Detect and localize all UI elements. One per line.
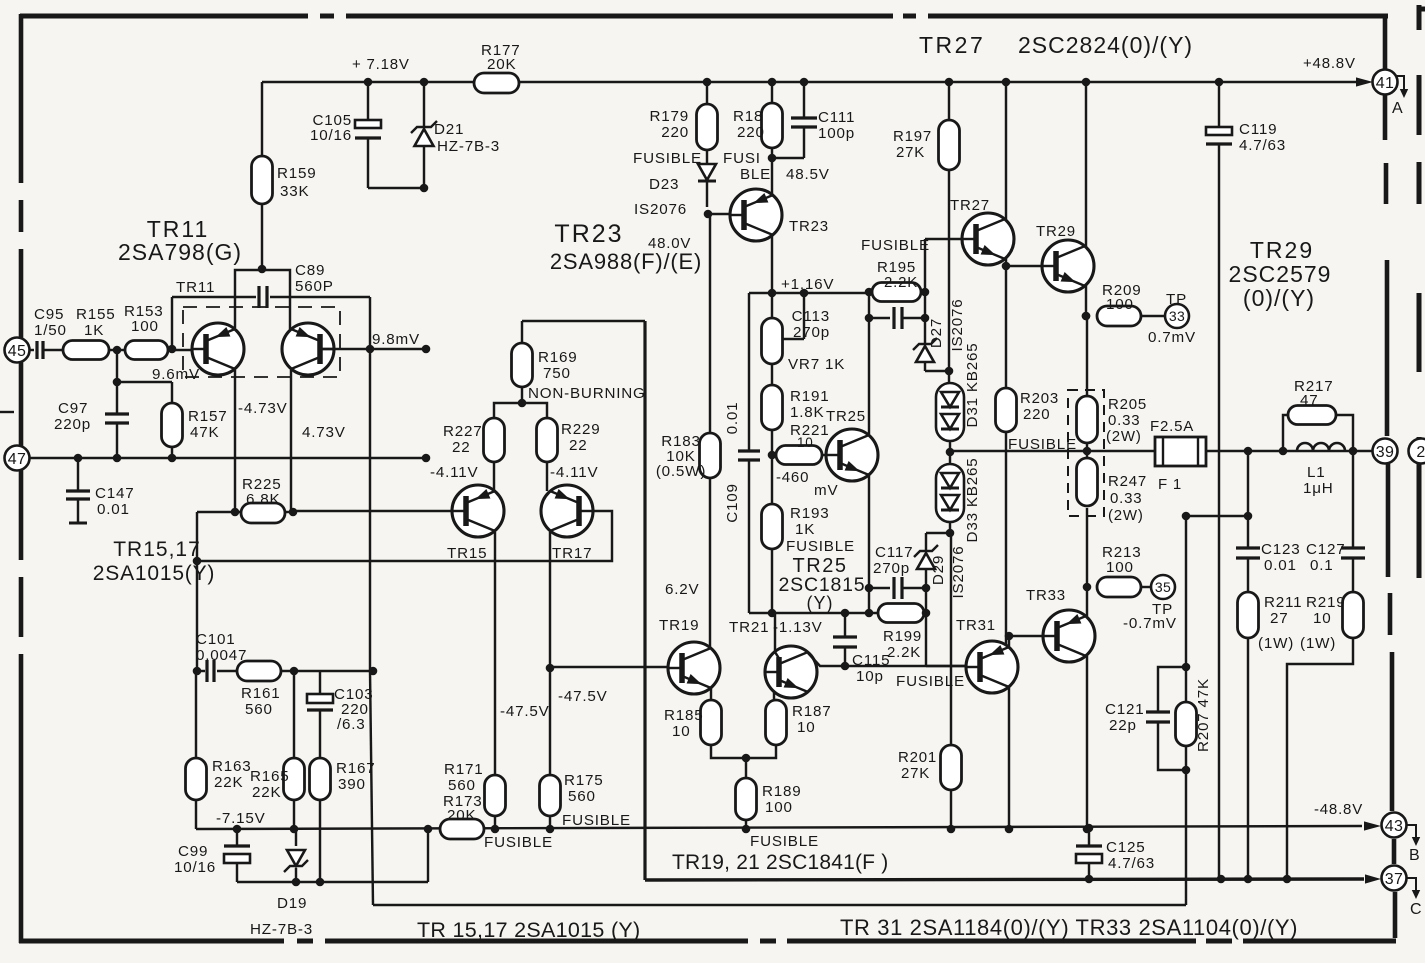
svg-text:270p: 270p <box>793 324 830 341</box>
transistor TR21 <box>765 646 817 698</box>
svg-text:FUSIBLE: FUSIBLE <box>786 538 855 555</box>
svg-text:(2W): (2W) <box>1106 428 1142 445</box>
svg-text:33: 33 <box>1169 308 1185 324</box>
svg-text:D23: D23 <box>649 176 679 193</box>
svg-text:R163: R163 <box>212 758 252 775</box>
svg-text:C101: C101 <box>196 631 236 648</box>
resistor R173 <box>440 819 484 839</box>
transistor TR11 (right half) <box>282 323 334 375</box>
wire R191 bottom junction <box>771 430 773 455</box>
svg-text:-7.15V: -7.15V <box>216 810 266 827</box>
svg-text:C125: C125 <box>1106 839 1146 856</box>
svg-text:VR7 1K: VR7 1K <box>788 356 845 373</box>
svg-text:R169: R169 <box>538 349 578 366</box>
resistor R193 <box>771 455 773 504</box>
inductor L1 <box>1297 443 1345 451</box>
node 39 <box>1373 439 1398 464</box>
svg-text:A: A <box>1392 100 1403 117</box>
wire TR17 emitter lead <box>546 462 548 491</box>
svg-text:0.01: 0.01 <box>1264 557 1297 574</box>
capacitor C119 <box>1218 82 1220 127</box>
svg-text:9.6mV: 9.6mV <box>152 366 200 383</box>
svg-text:TR27: TR27 <box>919 32 985 58</box>
svg-text:TR15,17: TR15,17 <box>113 538 201 561</box>
svg-text:FUSIBLE: FUSIBLE <box>633 150 702 167</box>
wire TR19 base row <box>550 666 667 668</box>
svg-text:10: 10 <box>672 723 691 740</box>
resistor R171 <box>485 775 506 816</box>
resistor R229 <box>537 418 558 462</box>
svg-text:27K: 27K <box>896 144 925 161</box>
wire R199 right column to TR31 base <box>925 588 927 613</box>
svg-text:TR29: TR29 <box>1250 237 1314 263</box>
wire TR15 collector column to R171 <box>494 532 496 775</box>
svg-text:D31 KB265: D31 KB265 <box>964 343 981 428</box>
wire TR25 emitter column <box>868 475 870 613</box>
zener diode D29 <box>925 533 927 551</box>
capacitor C111 <box>803 82 805 117</box>
svg-text:D21: D21 <box>434 121 464 138</box>
wire TR23 base lead <box>708 213 744 215</box>
wire TR21 base lead <box>774 613 776 652</box>
wire TR29 base lead <box>1006 265 1042 267</box>
wire R159 column <box>261 82 263 158</box>
svg-text:2.2K: 2.2K <box>884 274 918 291</box>
svg-text:10: 10 <box>797 435 814 450</box>
wire big loop box right edge (thick) <box>643 321 646 880</box>
zener diode D19 <box>295 829 297 846</box>
svg-text:C147: C147 <box>95 485 135 502</box>
svg-text:C95: C95 <box>34 306 64 323</box>
svg-text:C89: C89 <box>295 262 325 279</box>
node TR23 base junction <box>704 210 713 219</box>
wire TR21/TR25 base row (y=613) <box>749 612 880 614</box>
svg-text:R205: R205 <box>1108 396 1147 413</box>
svg-text:F 1: F 1 <box>1158 476 1182 493</box>
resistor R183 <box>709 214 711 433</box>
wire TR21 collector row <box>808 653 966 666</box>
svg-text:FUSIBLE: FUSIBLE <box>750 833 819 850</box>
resistor R163 <box>195 671 197 758</box>
svg-text:10: 10 <box>797 719 816 736</box>
zener diode D21 <box>423 82 425 127</box>
svg-text:100p: 100p <box>818 125 855 142</box>
diode stack D31 (KB265) <box>948 371 950 383</box>
svg-text:2SA798(G): 2SA798(G) <box>118 239 242 265</box>
svg-text:C99: C99 <box>178 843 208 860</box>
node D31 top <box>945 367 954 376</box>
wire TR25 collector column <box>868 318 870 435</box>
svg-text:C117: C117 <box>875 544 913 561</box>
svg-text:2: 2 <box>1416 444 1425 461</box>
svg-text:1μH: 1μH <box>1303 480 1334 497</box>
svg-text:560: 560 <box>568 788 596 805</box>
svg-text:TR17: TR17 <box>552 545 592 562</box>
arrow B below node 43 <box>1406 825 1416 838</box>
junction dots C-rail <box>1085 875 1094 884</box>
diode D27 <box>913 338 937 350</box>
resistor R179 <box>706 82 708 104</box>
wire TR23 emitter node <box>772 157 804 159</box>
wire R207 column upper <box>1185 516 1187 702</box>
svg-text:R201: R201 <box>898 749 937 766</box>
wire R225 left jog down <box>196 512 198 671</box>
svg-text:R187: R187 <box>792 703 832 720</box>
svg-text:R193: R193 <box>790 505 830 522</box>
resistor R219 <box>1343 592 1364 638</box>
svg-text:2SA1015(Y): 2SA1015(Y) <box>93 562 215 585</box>
svg-text:-47.5V: -47.5V <box>558 688 608 705</box>
svg-text:22K: 22K <box>252 784 281 801</box>
diode stack D33 (KB265) <box>949 452 951 464</box>
svg-text:R191: R191 <box>790 388 830 405</box>
resistor R199 <box>878 604 924 623</box>
node 43 <box>1382 813 1407 838</box>
svg-text:100: 100 <box>1106 559 1134 576</box>
svg-text:D27: D27 <box>928 318 945 348</box>
svg-text:FUSIBLE: FUSIBLE <box>896 673 965 690</box>
svg-text:IS2076: IS2076 <box>950 546 967 599</box>
svg-text:20K: 20K <box>487 56 516 73</box>
resistor R175 <box>540 775 561 816</box>
capacitor C115 <box>844 613 846 636</box>
svg-text:R161: R161 <box>241 685 281 702</box>
svg-text:2SC2579: 2SC2579 <box>1229 261 1332 287</box>
transistor TR25 <box>826 429 878 481</box>
wire C97 column <box>116 350 118 413</box>
svg-text:(1W): (1W) <box>1300 635 1336 652</box>
wire R155 to R153 <box>109 349 125 351</box>
svg-text:-0.7mV: -0.7mV <box>1123 615 1177 632</box>
svg-text:C121: C121 <box>1105 701 1145 718</box>
wire feedback tap row <box>1186 515 1248 517</box>
svg-text:6.8K: 6.8K <box>246 491 280 508</box>
svg-text:390: 390 <box>338 776 366 793</box>
resistor R247 <box>1077 458 1098 506</box>
transistor TR17 <box>541 485 593 537</box>
resistor R191 <box>771 364 773 385</box>
svg-text:4.7/63: 4.7/63 <box>1108 855 1155 872</box>
svg-text:R175: R175 <box>564 772 604 789</box>
svg-text:(Y): (Y) <box>807 593 834 613</box>
svg-text:1/50: 1/50 <box>34 322 67 339</box>
svg-text:(1W): (1W) <box>1258 635 1294 652</box>
svg-text:47: 47 <box>1300 392 1319 409</box>
transistor TR27 <box>962 213 1014 265</box>
wire TR11 right base to feedback column <box>321 348 426 350</box>
wire +48.8V top rail <box>262 81 1364 83</box>
svg-text:0.01: 0.01 <box>724 402 741 435</box>
test point node 35 <box>1151 575 1175 599</box>
svg-text:(2W): (2W) <box>1108 507 1144 524</box>
wire big loop box top edge <box>522 320 645 323</box>
svg-text:1.8K: 1.8K <box>790 404 824 421</box>
resistor R161 <box>237 661 281 681</box>
wire node 47 rail <box>29 457 426 459</box>
svg-text:750: 750 <box>543 365 571 382</box>
svg-text:C115: C115 <box>852 652 890 669</box>
svg-text:R197: R197 <box>893 128 932 145</box>
svg-text:C109: C109 <box>724 483 741 523</box>
wire TR17 collector column to R175 <box>549 532 551 775</box>
wire C123 column <box>1247 451 1249 548</box>
wire TR31 collector down <box>1008 687 1010 826</box>
resistor R227 <box>484 418 505 462</box>
capacitor C95 <box>29 349 34 351</box>
wire R219 bottom return <box>1287 638 1353 878</box>
transistor TR15 <box>452 485 504 537</box>
svg-text:R185: R185 <box>664 707 704 724</box>
node 45 <box>5 338 30 363</box>
svg-text:-48.8V: -48.8V <box>1314 801 1363 818</box>
arrow A below node 41 <box>1397 76 1404 90</box>
svg-text:D19: D19 <box>277 895 307 912</box>
wire R185/R187 bottom bracket <box>711 745 776 758</box>
svg-text:C97: C97 <box>58 400 88 417</box>
junction dots -48.8V rail <box>233 825 242 834</box>
wire D33 bottom to R201 <box>950 533 952 745</box>
svg-text:R179: R179 <box>649 108 689 125</box>
resistor R153 <box>125 341 168 360</box>
svg-text:48.5V: 48.5V <box>786 166 830 183</box>
svg-text:39: 39 <box>1376 444 1394 461</box>
svg-text:6.2V: 6.2V <box>665 581 700 598</box>
svg-text:C111: C111 <box>818 109 855 126</box>
resistor R217 <box>1283 415 1288 451</box>
svg-text:2SA988(F)/(E): 2SA988(F)/(E) <box>550 249 702 274</box>
wire TR15 base row <box>293 510 452 512</box>
resistor R205 <box>1086 316 1088 396</box>
border frame right edge <box>1383 16 1388 140</box>
wire bottom return riser <box>427 829 429 882</box>
resistor R209 <box>1082 312 1091 321</box>
svg-text:R171: R171 <box>444 761 484 778</box>
svg-text:10p: 10p <box>856 668 884 685</box>
wire TR11 right collector column <box>290 370 292 512</box>
svg-text:HZ-7B-3: HZ-7B-3 <box>437 138 500 155</box>
svg-text:560P: 560P <box>295 278 334 295</box>
border frame bottom edge <box>19 939 284 944</box>
svg-text:0.33: 0.33 <box>1110 490 1142 507</box>
dashed outline matched pair TR11 <box>183 307 340 377</box>
svg-text:F2.5A: F2.5A <box>1150 418 1194 435</box>
svg-text:C119: C119 <box>1239 121 1277 138</box>
wire R227/R229 top bracket <box>494 403 547 418</box>
svg-text:220: 220 <box>1023 406 1050 423</box>
svg-text:560: 560 <box>448 777 476 794</box>
wire C101/R161 row <box>197 670 205 672</box>
wire +1.16V row <box>749 292 868 294</box>
transistor TR11 (left half) <box>192 323 244 375</box>
svg-text:R18: R18 <box>733 108 763 125</box>
wire TR33 collector down <box>1086 656 1088 826</box>
svg-text:47K: 47K <box>190 424 219 441</box>
capacitor C121 <box>1158 667 1186 711</box>
svg-text:100: 100 <box>1106 296 1134 313</box>
resistor R157 <box>162 403 183 447</box>
svg-text:HZ-7B-3: HZ-7B-3 <box>250 921 313 938</box>
svg-text:D33 KB265: D33 KB265 <box>964 458 981 543</box>
wire TR27 base corner column <box>924 239 926 344</box>
svg-text:43: 43 <box>1385 818 1403 835</box>
capacitor C147 <box>77 458 79 490</box>
svg-text:R165: R165 <box>250 768 290 785</box>
wire TR11 left base riser to C89 <box>171 297 173 349</box>
svg-text:TR 15,17 2SA1015 (Y): TR 15,17 2SA1015 (Y) <box>417 918 641 942</box>
svg-text:1K: 1K <box>84 322 104 339</box>
svg-text:10/16: 10/16 <box>174 859 216 876</box>
wire bottom C-rail (thick) <box>645 879 1364 880</box>
resistor R165 <box>293 671 295 758</box>
wire TR29 collector to rail <box>1085 82 1087 248</box>
svg-text:TR25: TR25 <box>826 408 866 425</box>
svg-text:NON-BURNING: NON-BURNING <box>528 385 646 402</box>
wire C109 upper column <box>748 293 750 450</box>
svg-text:560: 560 <box>245 701 273 718</box>
svg-text:-4.11V: -4.11V <box>430 464 478 481</box>
wire TR27 base lead <box>925 238 975 240</box>
svg-text:100: 100 <box>765 799 793 816</box>
svg-text:R189: R189 <box>762 783 802 800</box>
svg-text:-1.13V: -1.13V <box>773 619 823 636</box>
svg-text:TR23: TR23 <box>554 220 623 248</box>
svg-text:TR31: TR31 <box>956 617 996 634</box>
transistor TR19 <box>668 642 720 694</box>
wire TR23 collector column <box>771 235 773 293</box>
svg-text:100: 100 <box>131 318 159 335</box>
svg-text:-4.73V: -4.73V <box>238 400 288 417</box>
capacitor C109 <box>738 449 760 452</box>
resistor R155 <box>63 341 109 360</box>
svg-text:C113: C113 <box>792 308 830 325</box>
svg-text:IS2076: IS2076 <box>634 201 687 218</box>
svg-text:9.8mV: 9.8mV <box>372 331 420 348</box>
wire TR29 emitter down <box>1085 284 1087 316</box>
svg-text:TR11: TR11 <box>176 279 215 296</box>
svg-text:10: 10 <box>1313 610 1332 627</box>
border frame left edge <box>19 14 24 16</box>
svg-text:-4.11V: -4.11V <box>550 464 598 481</box>
svg-text:4.7/63: 4.7/63 <box>1239 137 1286 154</box>
wire TR33 emitter up / R213 node <box>1086 508 1088 616</box>
svg-text:22: 22 <box>452 439 471 456</box>
svg-text:22p: 22p <box>1109 717 1137 734</box>
svg-text:TR19: TR19 <box>659 617 699 634</box>
capacitor C125 <box>1085 824 1094 833</box>
capacitor C97 <box>105 412 129 415</box>
svg-text:R155: R155 <box>76 306 116 323</box>
capacitor C117 <box>869 587 890 589</box>
svg-text:+1.16V: +1.16V <box>781 276 834 293</box>
resistor R187 <box>766 700 787 745</box>
resistor R159 <box>252 156 273 204</box>
wire TR11 left collector column <box>234 370 236 512</box>
svg-text:0.33: 0.33 <box>1108 412 1140 429</box>
svg-text:220p: 220p <box>54 416 91 433</box>
wire R169 top to feedback box <box>521 321 523 343</box>
wire TR21 emitter to R187 <box>773 692 775 700</box>
potentiometer VR7 <box>771 293 773 318</box>
wire R221 to TR25 base <box>822 454 826 456</box>
svg-text:22K: 22K <box>214 774 243 791</box>
wire -48.8V rail (to node 43) <box>196 826 1362 829</box>
svg-text:R167: R167 <box>336 760 376 777</box>
svg-text:TR21: TR21 <box>729 619 769 636</box>
svg-text:TR33: TR33 <box>1026 587 1066 604</box>
resistor R185 <box>701 700 722 745</box>
svg-text:R211: R211 <box>1264 594 1302 611</box>
capacitor C101 <box>205 660 208 682</box>
svg-text:D29: D29 <box>930 555 947 585</box>
svg-text:10/16: 10/16 <box>310 127 352 144</box>
transistor TR33 <box>1043 610 1095 662</box>
svg-text:270p: 270p <box>873 560 910 577</box>
resistor R169 <box>521 387 523 403</box>
wire TR11 emitter bracket to R159 <box>235 270 290 329</box>
wire TR27 emitter junction <box>1005 257 1007 266</box>
test point node 33 <box>1165 304 1189 328</box>
svg-text:0.01: 0.01 <box>97 501 130 518</box>
wire output rail <box>950 450 1372 452</box>
wire TR17 base return row <box>197 511 612 561</box>
svg-text:R157: R157 <box>188 408 228 425</box>
wire R225 row <box>197 511 241 513</box>
svg-text:33K: 33K <box>280 183 309 200</box>
border frame top edge <box>20 14 308 19</box>
resistor R167 <box>310 758 331 800</box>
transistor TR23 <box>730 189 782 241</box>
node output rail / diode mid <box>946 448 955 457</box>
wire output feedback bottom run <box>373 904 1186 906</box>
svg-text:1K: 1K <box>795 521 815 538</box>
wire stub at left edge <box>0 411 14 413</box>
svg-text:TR27: TR27 <box>950 197 990 214</box>
wire D33 bottom to D29 <box>926 532 950 534</box>
svg-text:TR19, 21 2SC1841(F ): TR19, 21 2SC1841(F ) <box>672 851 888 874</box>
svg-text:20K: 20K <box>447 807 476 824</box>
capacitor C123 <box>1236 546 1260 549</box>
svg-text:R247: R247 <box>1108 473 1147 490</box>
svg-text:R207 47K: R207 47K <box>1195 678 1212 752</box>
arrow C below node 37 <box>1406 878 1416 891</box>
wire TR15 emitter lead <box>493 462 495 491</box>
resistor R211 <box>1238 592 1259 638</box>
svg-text:+48.8V: +48.8V <box>1303 55 1356 72</box>
capacitor C105 <box>367 82 369 120</box>
svg-text:TR 31 2SA1184(0)/(Y) TR33 2S: TR 31 2SA1184(0)/(Y) TR33 2SA1104(0)/(Y) <box>840 915 1298 940</box>
svg-text:C: C <box>1410 901 1422 918</box>
svg-text:47: 47 <box>8 451 26 468</box>
node junction D21 bottom <box>420 184 429 193</box>
svg-text:0.7mV: 0.7mV <box>1148 329 1196 346</box>
svg-text:C123: C123 <box>1261 541 1301 558</box>
capacitor C113 <box>869 317 890 319</box>
capacitor C103 <box>319 671 321 694</box>
resistor R207 <box>1176 702 1197 746</box>
svg-text:+ 7.18V: + 7.18V <box>352 56 410 73</box>
wire R183 bottom to TR19 collector <box>709 478 711 648</box>
svg-text:R199: R199 <box>883 628 922 645</box>
capacitor C99 <box>236 829 238 845</box>
svg-text:FUSIBLE: FUSIBLE <box>484 834 553 851</box>
wire C105 bottom to D21 <box>368 187 424 189</box>
node output rail junctions <box>1244 447 1253 456</box>
svg-text:R227: R227 <box>443 423 483 440</box>
wire junction dots on +48.8V rail <box>364 78 373 87</box>
resistor R197 <box>948 82 950 120</box>
svg-text:0.1: 0.1 <box>1310 557 1334 574</box>
svg-text:27: 27 <box>1270 610 1289 627</box>
